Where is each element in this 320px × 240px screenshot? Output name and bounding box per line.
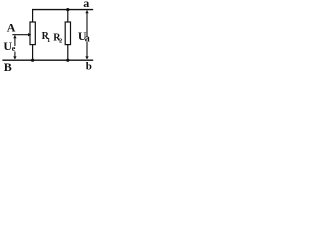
junction R2-bottom rail: [66, 59, 69, 62]
Ua up arrowhead: [85, 10, 88, 13]
wire R2 bottom: [67, 45, 69, 61]
svg-text:a: a: [83, 0, 89, 10]
junction R1-bottom rail: [31, 59, 34, 62]
svg-text:b: b: [86, 61, 92, 73]
wiper arrowhead into R1: [28, 33, 31, 36]
Ue up arrowhead: [13, 35, 16, 38]
voltage arrow Ua upper shaft: [86, 11, 88, 37]
voltage arrow Ue upper shaft: [14, 35, 16, 46]
Ua down arrowhead: [85, 56, 88, 59]
wire terminal A to R1 wiper: [12, 34, 29, 36]
svg-text:B: B: [4, 60, 12, 74]
wire R1 top: [32, 9, 34, 22]
svg-text:a: a: [85, 34, 90, 45]
bottom rail (node B/b rail): [2, 59, 93, 61]
top rail (node a rail): [32, 9, 93, 11]
svg-text:2: 2: [59, 37, 62, 44]
wire R2 top: [67, 10, 69, 23]
resistor R2: [65, 22, 70, 45]
svg-text:e: e: [12, 44, 16, 53]
Ue down arrowhead: [13, 56, 16, 59]
wire R1 bottom: [32, 45, 34, 61]
svg-text:1: 1: [47, 37, 50, 44]
svg-text:A: A: [7, 20, 16, 34]
voltage arrow Ue lower shaft: [14, 52, 16, 59]
junction R2-top rail: [66, 8, 69, 11]
resistor R1: [30, 22, 35, 45]
voltage arrow Ua lower shaft: [86, 42, 88, 59]
